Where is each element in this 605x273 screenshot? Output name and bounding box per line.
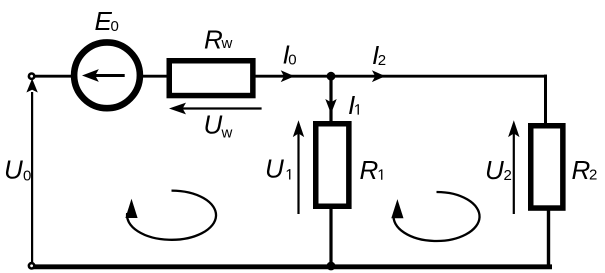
voltage source E0 (circle) bbox=[74, 42, 140, 108]
svg-text:0: 0 bbox=[111, 18, 119, 35]
voltage arrow U2 (up, left of R2) bbox=[513, 133, 515, 214]
svg-text:U: U bbox=[265, 154, 284, 184]
svg-text:U: U bbox=[204, 110, 223, 140]
current arrow I2 bbox=[372, 70, 385, 82]
wire: R1 to bottom junction bbox=[329, 206, 332, 267]
svg-text:w: w bbox=[221, 125, 233, 142]
wire: junction down to R1 bbox=[329, 76, 332, 122]
resistor R1 bbox=[316, 124, 349, 207]
voltage arrow Uw (left, under Rw) bbox=[182, 107, 262, 109]
svg-text:I: I bbox=[348, 90, 355, 120]
mesh loop arrow right bbox=[394, 192, 480, 241]
svg-text:U: U bbox=[4, 155, 23, 185]
node: bottom junction dot bbox=[327, 262, 336, 271]
wire: top junction to top-right corner bbox=[331, 75, 547, 78]
svg-text:2: 2 bbox=[504, 167, 512, 184]
svg-text:w: w bbox=[221, 35, 233, 52]
wire: top-right corner down to R2 bbox=[544, 75, 547, 126]
svg-text:U: U bbox=[485, 155, 504, 185]
wire: E0 to resistor Rw bbox=[139, 75, 170, 78]
svg-text:R: R bbox=[572, 155, 591, 185]
terminal: top-left bbox=[29, 74, 34, 79]
svg-text:2: 2 bbox=[378, 52, 386, 69]
resistor R2 bbox=[531, 126, 563, 208]
current arrow I0 bbox=[281, 70, 295, 82]
svg-text:0: 0 bbox=[288, 52, 296, 69]
node: top junction dot bbox=[327, 72, 336, 81]
wire: top-left terminal to E0 source bbox=[34, 75, 76, 78]
wire: R2 down to bottom wire bbox=[547, 206, 550, 267]
EMF arrow inside E0 (pointing left) bbox=[95, 74, 125, 77]
svg-text:2: 2 bbox=[589, 166, 597, 183]
svg-text:R: R bbox=[360, 155, 379, 185]
current arrow I1 (down) bbox=[325, 99, 336, 114]
mesh loop arrow left bbox=[127, 191, 216, 240]
svg-text:0: 0 bbox=[23, 168, 31, 185]
voltage arrow U1 (up, left of R1) bbox=[297, 133, 299, 214]
resistor Rw bbox=[169, 61, 253, 96]
terminal: bottom-left bbox=[29, 263, 34, 268]
wire: Rw to top junction bbox=[255, 75, 331, 78]
voltage arrow U0 (up, left side) bbox=[31, 92, 33, 263]
svg-text:R: R bbox=[204, 25, 223, 55]
bottom wire bbox=[32, 264, 552, 269]
